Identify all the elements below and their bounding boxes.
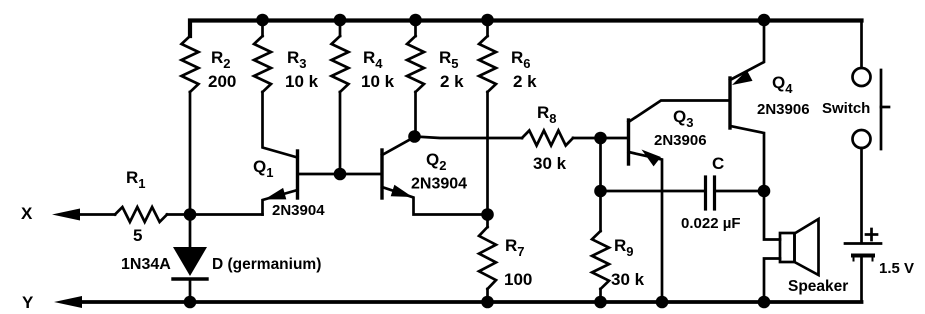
wire R2 bottom <box>189 92 192 215</box>
wire Q1 base <box>298 173 341 176</box>
svg-text:R4: R4 <box>363 48 383 71</box>
wire R5 bottom to Q2 collector node <box>414 92 417 138</box>
svg-text:2N3904: 2N3904 <box>272 202 325 219</box>
svg-text:R2: R2 <box>211 48 231 71</box>
diode D cathode bar <box>173 277 207 280</box>
svg-text:2N3906: 2N3906 <box>757 101 810 118</box>
node R8/Q3 base junction <box>594 132 607 145</box>
diode D anode wire <box>189 215 192 248</box>
svg-text:C: C <box>712 154 724 173</box>
svg-text:R8: R8 <box>537 103 557 126</box>
svg-text:Y: Y <box>22 293 34 312</box>
speaker horn <box>795 219 819 275</box>
resistor R5 <box>407 36 424 92</box>
node Q2 collector junction <box>408 130 421 143</box>
battery negative plate <box>853 254 873 258</box>
wire Q3 collector to Q4 base <box>629 101 731 123</box>
node diode ground junction <box>184 296 197 309</box>
node R4 top junction <box>334 14 347 27</box>
svg-text:Q2: Q2 <box>426 150 446 173</box>
svg-text:0.022 µF: 0.022 µF <box>681 215 741 232</box>
wire R3 bottom to Q1 collector <box>263 92 298 158</box>
resistor R2 <box>182 36 199 92</box>
svg-text:2 k: 2 k <box>513 72 537 91</box>
node Q4 emitter rail junction <box>758 14 771 27</box>
node R5 top junction <box>409 14 422 27</box>
diode D triangle <box>173 247 207 276</box>
wire Q4 emitter up to rail <box>730 20 764 80</box>
wire Q2 emitter <box>382 187 488 215</box>
resistor R4 <box>332 36 349 92</box>
svg-text:10 k: 10 k <box>361 72 395 91</box>
transistor Q3 bar <box>627 120 630 164</box>
wire R9 top stub <box>599 191 602 231</box>
svg-text:R7: R7 <box>505 236 525 259</box>
svg-text:30 k: 30 k <box>611 270 645 289</box>
node R9/C junction <box>594 185 607 198</box>
node R9 bottom junction <box>594 296 607 309</box>
wire R5 stub <box>414 20 417 36</box>
wire node to Q1 emitter <box>190 213 263 216</box>
svg-text:2 k: 2 k <box>440 72 464 91</box>
capacitor C right plate <box>713 177 716 209</box>
resistor R8 <box>522 131 573 146</box>
node R6 top junction <box>481 14 494 27</box>
svg-text:1.5 V: 1.5 V <box>879 260 914 277</box>
svg-text:Q1: Q1 <box>253 157 273 180</box>
resistor R9 <box>592 231 609 289</box>
resistor R3 <box>254 36 271 92</box>
wire base junction to Q2 <box>340 173 382 176</box>
wire battery to ground rail <box>860 256 863 302</box>
wire node to Q3 base <box>601 137 629 140</box>
node emitter/R6/R7 junction <box>481 208 494 221</box>
node base junction R4/Q1/Q2 <box>334 168 347 181</box>
wire R6 bottom crossing to emitter node <box>486 92 489 215</box>
svg-text:R1: R1 <box>126 168 146 191</box>
node speaker ground junction <box>758 296 771 309</box>
svg-text:R6: R6 <box>511 48 531 71</box>
capacitor C left plate <box>704 177 707 209</box>
svg-text:10 k: 10 k <box>285 72 319 91</box>
wire Q3 emitter down to ground <box>629 152 663 302</box>
transistor Q1 bar <box>296 151 299 198</box>
transistor Q2 bar <box>380 150 383 198</box>
wire Q2 collector <box>382 137 415 155</box>
wire X input line <box>70 213 115 216</box>
terminal X arrow <box>52 209 80 221</box>
capacitor C wire right <box>716 190 765 193</box>
svg-text:D (germanium): D (germanium) <box>212 256 321 273</box>
battery plus sign <box>866 233 877 236</box>
switch top contact circle <box>853 68 871 86</box>
wire R6 stub <box>486 20 489 36</box>
diode D cathode wire <box>189 279 192 302</box>
wire speaker bottom to ground <box>764 259 780 303</box>
transistor Q4 bar <box>728 78 731 128</box>
svg-text:2N3904: 2N3904 <box>411 176 467 193</box>
capacitor C wire left <box>601 190 705 193</box>
wire R4 stub <box>339 20 342 36</box>
svg-text:R5: R5 <box>439 48 459 71</box>
battery positive plate <box>845 242 881 245</box>
svg-text:200: 200 <box>208 72 236 91</box>
wire switch to battery <box>860 148 863 242</box>
wire R3 stub <box>261 20 264 36</box>
wire switch column top <box>860 20 863 68</box>
wire Q2 collector node to R8 <box>415 137 523 139</box>
wire R4 bottom to base line <box>339 92 342 174</box>
node C right junction <box>758 185 771 198</box>
switch lever tick <box>881 106 889 109</box>
wire R8 right to node <box>573 137 601 140</box>
node R3 top junction <box>256 14 269 27</box>
svg-text:100: 100 <box>504 270 532 289</box>
svg-text:Speaker: Speaker <box>788 278 848 295</box>
svg-text:30 k: 30 k <box>533 154 567 173</box>
wire top supply rail <box>190 21 862 37</box>
node Q3 emitter ground junction <box>656 296 669 309</box>
wire R8 node down to R9/C node <box>599 138 602 191</box>
switch bottom contact circle <box>853 130 871 148</box>
node X/diode junction <box>184 208 197 221</box>
wire R9 bottom stub <box>599 289 602 302</box>
svg-text:1N34A: 1N34A <box>121 256 171 273</box>
svg-text:2N3906: 2N3906 <box>654 132 707 149</box>
svg-text:5: 5 <box>133 226 142 245</box>
wire Q4 collector down <box>730 126 764 191</box>
speaker driver box <box>780 233 795 262</box>
transistor Q3 emitter arrow <box>642 150 661 167</box>
wire Q1 emitter <box>263 190 298 215</box>
svg-text:X: X <box>21 204 33 223</box>
svg-text:Switch: Switch <box>822 100 870 117</box>
resistor R7 <box>479 227 496 289</box>
node R7 bottom junction <box>481 296 494 309</box>
resistor R1 <box>115 207 167 222</box>
wire R7 top stub <box>486 215 489 228</box>
transistor Q1 emitter arrow <box>265 188 287 200</box>
terminal Y arrow <box>54 296 82 308</box>
transistor Q4 emitter arrow <box>732 70 753 85</box>
wire R7 bottom stub <box>486 289 489 302</box>
wire R1 to diode node <box>167 213 190 216</box>
transistor Q2 emitter arrow <box>391 185 413 197</box>
resistor R6 <box>479 36 496 92</box>
wire bottom ground rail <box>70 300 862 304</box>
switch lever bar <box>880 70 883 149</box>
svg-text:Q3: Q3 <box>673 107 693 130</box>
wire C node down to speaker <box>764 191 780 240</box>
svg-text:R9: R9 <box>614 236 634 259</box>
svg-text:R3: R3 <box>287 48 307 71</box>
svg-text:Q4: Q4 <box>772 73 793 96</box>
